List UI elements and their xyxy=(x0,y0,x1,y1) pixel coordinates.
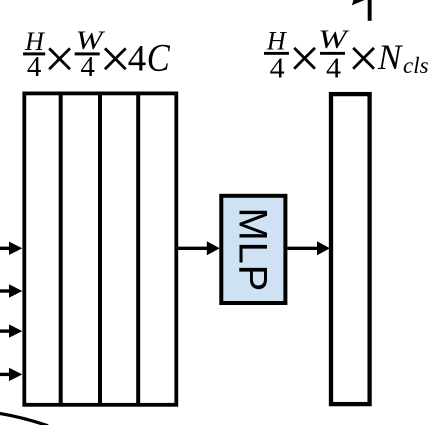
svg-text:MLP: MLP xyxy=(230,207,274,292)
svg-text:4: 4 xyxy=(326,52,342,84)
svg-text:cls: cls xyxy=(403,53,429,78)
svg-text:4: 4 xyxy=(27,52,42,83)
svg-text:W: W xyxy=(318,25,350,54)
svg-text:×: × xyxy=(100,28,132,90)
svg-text:4: 4 xyxy=(128,39,147,80)
svg-text:4: 4 xyxy=(80,52,95,83)
svg-text:×: × xyxy=(289,28,321,90)
svg-text:C: C xyxy=(147,36,171,79)
svg-text:N: N xyxy=(377,37,403,77)
svg-text:4: 4 xyxy=(270,52,286,84)
svg-text:×: × xyxy=(44,28,76,90)
svg-text:×: × xyxy=(348,28,380,90)
svg-text:H: H xyxy=(266,26,287,55)
